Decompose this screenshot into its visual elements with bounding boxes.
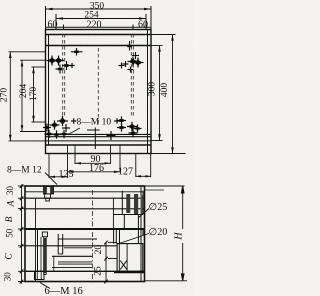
dim line 176 [68,171,121,173]
step line in top plate y=191.8 [25,191,44,193]
H dim [145,186,188,281]
small cross left of 8-M10 text [71,118,77,123]
guide bush top right (hatched) [113,191,143,229]
pillar seat verticals below boundary 229 [113,229,115,244]
guide pillar lower right [108,229,143,271]
ledge/thread marks region [64,247,92,249]
center mark cross at (95.3,130) [87,128,100,150]
ejector plate top line [58,238,97,240]
leader d20 [118,234,150,245]
ext stubs from plate [9,51,46,53]
dim line 90 [75,162,111,164]
centerline x=96 dashed [97,48,99,124]
plate boundary y=198.2 [25,197,145,199]
centerline x=131.3/133.3 double dashed [130,34,132,118]
dim line 300 [159,46,161,141]
upper-right hole cluster [119,57,144,73]
push rod (center) [42,232,47,275]
ext 300 bottom [151,140,163,142]
inner left edge [48,35,50,146]
dim line 125 [49,176,68,178]
leader 8-M10 [66,128,80,135]
ext line left x=45.5 [45,6,47,30]
tick marks [20,184,24,283]
cross hole (76.5,51.8) [71,48,83,56]
inner right edge [140,186,142,282]
leader 8-M12 [45,173,57,185]
M12 screw in top plate [44,187,54,202]
centerline x=63.5 double dashed [63,34,134,124]
plate outline [46,30,152,154]
stub lines left of pillar [108,241,117,243]
X hatch in pillar [120,261,127,270]
plate boundary y=271.3 [25,270,145,272]
ext 300 top [151,45,163,47]
ejector pin pair [57,234,59,254]
small cross (135.5,55.5) [132,52,139,59]
hole cross marks [71,41,139,59]
dim line 204 [21,60,23,131]
lower-left hole cluster [43,116,77,139]
ext verticals below plate [48,154,50,179]
leader d25 [138,209,149,219]
ext line right x=151 [150,6,152,30]
inner long vertical x=35.5 [35,198,37,281]
center tick (129.5,46) [127,41,131,51]
horizontal plate line y=145 [46,144,152,146]
section centerline [92,190,94,284]
leader 6-M16 [40,283,50,289]
body outline [25,186,145,282]
screw head box in bottom plate [35,271,45,279]
dim line 60/220/60 [46,26,152,28]
ext line x=146 [145,14,147,30]
pillar block [117,244,143,272]
M16 screw bottom left [35,230,98,280]
horizontal plate line y=140.5 [46,140,152,142]
cross on bottom line x=111 [107,131,116,140]
ext 400 bottom [148,153,186,155]
inner right edge [147,30,149,154]
dim line 350 [46,8,152,10]
dim line 127 [136,175,151,177]
paper grain overlay [0,0,193,296]
small cross right of 8-M10 text [114,118,120,123]
ext 400 top [151,34,176,36]
ext line x=56 [55,14,57,30]
plate boundary y=245.8 [25,245,117,247]
dim line 270 [9,52,11,141]
horizontal plate line y=134.6 [46,133,152,135]
dim line 170 [33,67,35,122]
horizontal plate line y=45.5 [46,45,152,47]
plate boundary y=229 [25,228,145,230]
dim line 400 [172,35,174,154]
horizontal plate line y=34.5 [46,34,152,36]
dim line 254 [56,18,146,20]
upper-left hole cluster [47,56,75,74]
lower-right hole cluster [87,116,142,149]
plate boundary y=208.4 [25,208,145,210]
